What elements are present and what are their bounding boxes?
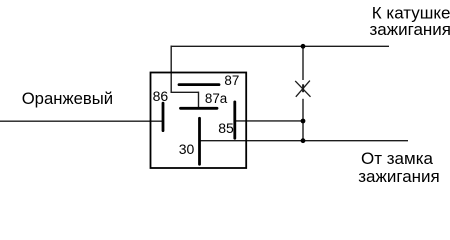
junction dot: pin 85 branch	[301, 119, 306, 124]
wire: right vertical upper segment	[302, 46, 304, 80]
wire: step horizontal inside relay	[171, 91, 199, 93]
svg-text:86: 86	[153, 88, 169, 104]
svg-text:зажигания: зажигания	[358, 167, 440, 186]
junction dot: pin 30 branch	[301, 138, 306, 143]
svg-text:85: 85	[218, 120, 234, 136]
pin 87 contact bar	[179, 83, 219, 86]
svg-text:87а: 87а	[205, 91, 228, 106]
pin 85 contact bar	[233, 102, 236, 138]
svg-text:Оранжевый: Оранжевый	[22, 89, 113, 108]
wire: pin 85 to right vertical branch	[236, 120, 304, 122]
svg-text:зажигания: зажигания	[370, 20, 450, 39]
wire: right vertical lower segment	[302, 99, 304, 141]
pin 30 contact bar	[198, 118, 201, 164]
svg-text:87: 87	[224, 73, 239, 88]
pin 86 contact bar	[162, 103, 165, 130]
svg-text:30: 30	[179, 141, 195, 157]
wire: vertical drop from top line into relay	[170, 46, 172, 93]
wire: left horizontal (orange wire) to pin 86	[0, 120, 162, 122]
pin 87a contact bar	[181, 107, 218, 110]
cut mark X on ignition wire	[295, 81, 310, 97]
wire: step vertical to 87a contact	[198, 92, 200, 108]
wire: pin 30 to ignition switch	[200, 140, 409, 142]
wire: top horizontal to ignition coil	[171, 45, 389, 47]
svg-text:От замка: От замка	[361, 149, 433, 168]
junction dot: top line	[301, 44, 306, 49]
relay body	[151, 73, 247, 169]
